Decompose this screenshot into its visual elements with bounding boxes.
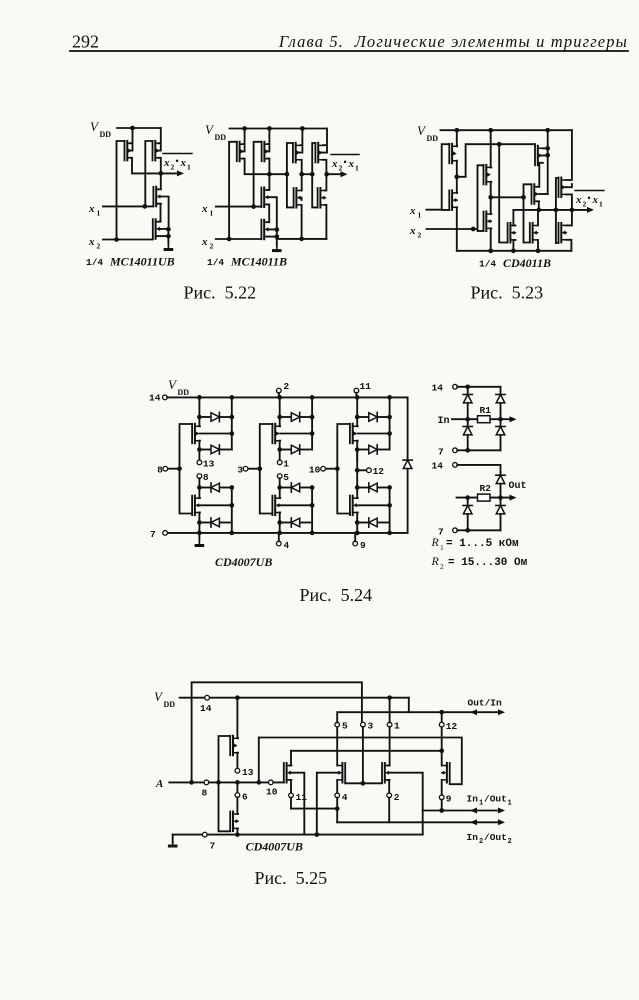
transistor VT15 p-channel (inverter B) [484,165,492,185]
wire VDD drop to VT5 source [243,129,245,145]
svg-text:x: x [201,203,208,215]
ground (circuit 1) [164,244,174,252]
node n substrate dot (pair B) [310,503,315,508]
svg-text:= 1...5 кОм: = 1...5 кОм [446,538,519,550]
wire VDD drop to VT1 source [130,128,132,143]
node VDD rail dot right (pair A) [229,395,234,400]
wire rail M (nor output) [513,209,572,211]
transistor VT17 p-channel (nor upper B) [532,184,540,204]
diode output clamp (circuit 4) [403,460,412,468]
pin 13 terminal (pair A) [197,460,202,465]
pin 7 terminal [163,531,168,536]
wire VDD drop to VT18 source [543,130,548,148]
wire VT5 substrate tie [243,146,246,151]
svg-text:1: 1 [599,200,603,209]
label output x2*x1 (circuit 1) [163,154,192,172]
node output junction (circuit 1) [158,171,163,176]
label pin 12 (circuit 5) [446,721,458,732]
transistor VT21 p-channel (output inverter) [559,178,567,198]
transistor VT20 n-channel (nor lower B) [530,223,538,243]
wire n source drop (pair A) [198,513,201,533]
wire p gate lead (pair C) [337,424,350,514]
svg-text:2: 2 [339,164,343,173]
label pin 5 (pair B) [283,472,289,483]
diode lower-left (network R1) [463,419,472,450]
wire W3 ground rail (circuit 5) [173,834,423,836]
caption Рис. 5.23 [471,283,544,303]
diode p-drain-VDD (pair A) [199,445,231,454]
node diode branch dot (pair B) [277,415,282,420]
wire VT18 substrate tie [541,155,548,157]
pin 11 terminal (circuit 5) [289,793,294,798]
node bottom rail dot (network R1) [465,448,470,453]
label pin 4 [284,540,290,551]
diode n-source-VSS (pair C) [357,518,389,527]
svg-text:1: 1 [418,211,422,220]
svg-text:DD: DD [427,134,439,143]
node VDD rail dot right (pair B) [310,395,315,400]
diode upper-right (network R1) [496,387,505,419]
svg-text:6: 6 [242,792,248,803]
label x1 (circuit 3) [409,205,422,220]
wire top rail (network R1) [457,386,500,388]
node VT8 substrate dot [274,227,279,232]
wire VDD drop to VT15 source [490,130,493,167]
wire pin9 stub to In1 line [441,800,443,811]
node pin stub dot (pair C) [355,468,360,473]
transistor switch S1 (circuit 5) [284,763,292,783]
node output dot (circuit 3) [570,208,575,213]
node ground rail dot (circuit 2) [299,237,304,242]
arrow Out/In [442,709,505,715]
wire top rail (network R2) [457,464,500,466]
node bottom rail dot left (pair A) [197,531,202,536]
wire gate line S2-S3 (circuit 5) [345,782,382,784]
node ground dot B [488,248,493,253]
pin 13 terminal (circuit 5) [235,768,240,773]
wire VT7 substrate lead [268,197,276,229]
svg-text:7: 7 [438,447,444,458]
svg-text:x: x [88,236,95,248]
node bottom rail dot right (pair B) [310,531,315,536]
node n substrate dot (pair C) [387,503,392,508]
svg-text:12: 12 [446,721,458,732]
node diode column dot a (pair B) [310,415,315,420]
wire VDD rail (circuit 2) [230,128,328,130]
wire x1 input (circuit 1) [103,205,153,207]
label x2 (circuit 3) [409,225,422,240]
wire p-source drop (pair C) [356,397,358,426]
wire VT1 drain to output node [130,158,161,174]
svg-text:2: 2 [210,242,214,251]
wire n drain stub (pair A) [198,497,201,499]
label R2 value [431,554,528,571]
wire pin2 drop to In2 line [388,798,390,823]
wire W2 VDD rail (circuit 5) [180,697,409,699]
wire L5 drain line (circuit 5) [291,750,442,752]
node x2 junction dot [114,237,119,242]
label In1/Out1 (circuit 5) [467,794,512,808]
node VDD dot 3 (circuit 3) [545,128,550,133]
wire VT22 drain up to output node [566,210,572,226]
pin 8 terminal (pair A) [197,474,202,479]
node VDD dot 3 (circuit 2) [300,126,305,131]
wire R1 drop to VT19 gate [499,144,507,242]
diode n-source-VSS (pair B) [280,518,312,527]
svg-text:1: 1 [210,209,214,218]
svg-text:7: 7 [438,527,444,538]
node In1 dot (circuit 5) [439,808,444,813]
svg-text:Рис. 5.25: Рис. 5.25 [255,868,328,888]
pin 8 terminal (circuit 5) [204,780,209,785]
node bottom rail dot left (pair B) [277,531,282,536]
wire VT2 substrate tie [160,145,161,151]
node bottom rail dot (network R2) [465,528,470,533]
wire VDD drop to VT6 source [267,129,269,145]
label pin 11 (circuit 5) [296,792,308,803]
label gate pin 3 (pair B) [237,465,243,476]
transistor VT11 p-channel (circuit 2 buffer 2) [315,143,323,163]
wire VSS diode column (pair C) [389,488,391,533]
svg-text:1/4: 1/4 [86,257,103,268]
node A1 dot (inverter A out) [454,174,459,179]
pin 7 terminal (network R1) [453,448,458,453]
node gate line dot (circuit 5) [361,781,366,786]
wire stage3 gate rail (circuit 2) [312,143,317,207]
svg-text:V: V [417,123,427,138]
pin 2 terminal (circuit 5) [387,793,392,798]
label pin 8 (pair A) [203,472,209,483]
wire x1 input (circuit 3) [427,209,442,211]
diode n-drain-VSS (pair A) [199,483,231,492]
node A dot pin6 (circuit 5) [235,780,240,785]
arrow In1/Out1 [470,808,505,814]
wire VT18 drain to VT17 source [537,163,543,187]
pin 1 terminal (pair B) [277,460,282,465]
wire VT5 drain to node N1 [243,159,287,175]
wire output arrow (circuit 1) [161,170,184,176]
wire right diode column (circuit 4) [407,397,409,533]
wire p drain drop to pin (pair B) [279,441,282,461]
svg-text:R2: R2 [480,483,492,494]
svg-text:1: 1 [394,721,400,732]
diode p-drain-VDD (pair C) [357,445,389,454]
wire inverter A gate rail [442,144,450,210]
node R1 dot [497,142,502,147]
svg-text:DD: DD [178,388,190,397]
wire W2 drop to OutIn (circuit 5) [408,698,410,713]
wire VDD drop to VT2 source [158,128,161,143]
wire common drain column (pair C) [356,450,358,499]
transistor VT3 n-channel (upper, circuit 1) [153,187,161,207]
label pin 14 (network R1) [432,383,444,394]
svg-text:2: 2 [284,381,290,392]
transistor VT10 n-channel (circuit 2 buffer 1) [294,188,302,208]
wire gate input (pair A) [168,468,180,470]
wire VT16 source down to ground rail [490,228,493,250]
svg-text:Рис. 5.22: Рис. 5.22 [184,283,257,303]
node In dot right [498,417,503,422]
label VDD (circuit 4) [168,377,189,397]
wire S3 source drop to pin 2 [388,780,390,793]
node W2 dot source (circuit 5) [235,695,240,700]
diode gate-VDD (pair A) [199,412,231,421]
label pin 13 (circuit 5) [242,767,254,778]
transistor n-channel (pair B) [272,496,280,515]
pin 1 terminal (circuit 5) [387,722,392,727]
pin 14 terminal (network R1) [453,384,458,389]
running head: Глава 5. Логические элементы и триггеры [278,32,628,51]
wire S4 bus (circuit 5) [441,712,443,765]
svg-text:9: 9 [446,794,452,805]
wire VT17 substrate lead [539,193,548,195]
node R2 dot [521,195,526,200]
pin 14 terminal [163,395,168,400]
label x1 (circuit 1) [88,203,101,218]
pin input terminal (pair A) [163,466,168,471]
svg-text:7: 7 [150,529,156,540]
wire pin 12 stub (pair C) [357,469,367,471]
wire pin5 bus (circuit 5) [336,727,338,766]
node M dot 2 (gate tap) [554,208,559,213]
svg-text:2: 2 [97,242,101,251]
node n diode column dot a (pair C) [387,485,392,490]
wire VT16 drain up to B1 [490,197,493,214]
diode upper (network R2) [496,465,505,498]
wire S4 source to pin 9 [441,780,443,795]
wire VDD rail (circuit 3) [441,129,572,131]
pin 12 terminal (pair C) [367,468,372,473]
svg-text:1: 1 [508,800,512,808]
svg-text:2: 2 [171,163,175,172]
node n diode branch dot (pair C) [355,485,360,490]
wire n source drop (pair C) [356,513,359,533]
wire stage2 gate rail (circuit 2) [287,143,294,207]
label R1 [480,405,492,416]
transistor VT5 p-channel (circuit 2 input stage left) [237,142,245,162]
wire x2 input (circuit 1) [103,239,153,241]
svg-text:Out/In: Out/In [468,698,503,709]
wire bottom rail (network R2) [457,529,500,531]
transistor VT23 p-channel (circuit 5 inverter) [230,736,238,756]
transistor switch S3 (circuit 5) [382,763,390,783]
label pin 14 (circuit 5) [200,703,212,714]
wire p source stub (pair B) [279,425,282,427]
svg-text:14: 14 [200,703,212,714]
svg-text:MC14011B: MC14011B [230,255,287,269]
svg-text:CD4011B: CD4011B [503,256,551,270]
svg-text:DD: DD [100,130,112,139]
wire VT12 source to ground rail [325,205,326,239]
svg-text:In: In [438,416,450,427]
wire VT7 source to VT8 drain [267,204,269,222]
svg-text:•: • [588,193,591,203]
caption Рис. 5.24 [300,585,373,605]
node VT4 substrate dot [166,227,171,232]
wire VSS diode column (pair B) [311,488,313,533]
wire VT2 drain to output node [158,158,161,174]
wire VT4 source lead [158,235,169,237]
wire VT3 substrate lead [160,197,168,230]
wire VT6 gate lead [254,142,262,207]
label pin 2 (circuit 5) [394,792,400,803]
node VDD rail dot left (pair A) [197,395,202,400]
pin 6 terminal (circuit 5) [235,793,240,798]
label pin 1 (pair B) [283,458,289,469]
wire VT10 substrate tie [300,198,301,200]
node OutIn dot (circuit 5) [439,710,444,715]
wire VT13 drain to node A1 [456,161,458,177]
node A dot gate rail (circuit 5) [216,780,221,785]
node gate input dot (pair C) [335,466,340,471]
label pin 1 (circuit 5) [394,721,400,732]
wire VT19 drain up to rail M [513,210,515,226]
resistor R1 [478,416,491,423]
wire VDD drop to VT9 source [301,129,303,146]
svg-text:13: 13 [242,767,254,778]
svg-text:1/4: 1/4 [207,257,224,268]
wire VT20 drain up to rail M [537,210,539,226]
wire VT22 source down to ground rail [566,240,571,251]
pin input terminal (pair C) [321,466,326,471]
svg-text:5: 5 [283,472,289,483]
wire VDD diode column (pair C) [389,397,391,449]
svg-text:4: 4 [342,792,348,803]
label pin 13 (pair A) [203,458,215,469]
wire VDD drop to VT13 source [456,130,458,146]
wire S3 substrate lead [389,773,423,835]
label 1/4 CD4011B [479,256,551,270]
resistor R2 [478,494,491,501]
node In dot left [465,417,470,422]
ground (circuit 4) [195,533,205,547]
svg-text:DD: DD [164,700,176,709]
pin 5 terminal (circuit 5) [335,722,340,727]
wire VT4 substrate lead [160,228,169,230]
wire line A2 (circuit 5) [291,808,337,810]
svg-text:7: 7 [210,841,216,852]
node N3 dot (circuit 2) [324,172,329,177]
label pin 7 [150,529,156,540]
node VT18 source dot [545,146,550,151]
wire VT11 substrate tie [321,147,327,153]
svg-text:x: x [331,158,338,170]
transistor VT18 p-channel (nor upper A) [535,146,543,166]
wire gate input (pair C) [325,468,337,470]
wire VT3 source to VT4 drain [158,204,160,222]
svg-text:9: 9 [360,540,366,551]
label Out (network R2) [509,481,527,492]
svg-text:3: 3 [368,721,374,732]
svg-text:Рис. 5.23: Рис. 5.23 [471,283,544,303]
node W3 dot inverter (circuit 5) [235,832,240,837]
node S4 bus dot on L5 [439,748,444,753]
svg-text:R1: R1 [480,405,492,416]
node VDD dot 1 (circuit 2) [242,126,247,131]
pin input terminal (pair B) [243,466,248,471]
pin 9 terminal [353,533,358,546]
wire S1 source drop to pin 11 [289,780,291,793]
svg-text:x: x [180,157,187,169]
label output x2*x1 (circuit 2) [331,155,359,173]
pin 14 terminal (network R2) [453,463,458,468]
svg-text:2: 2 [508,838,512,846]
caption Рис. 5.25 [255,868,328,888]
node bottom rail dot left (pair C) [355,531,360,536]
wire n substrate lead (pair C) [358,504,390,506]
svg-text:1: 1 [440,543,444,552]
pin 4 terminal (circuit 5) [335,793,340,798]
label x2 (circuit 2) [201,236,214,251]
wire VDD rail (circuit 1) [117,127,161,129]
node n diode branch dot (pair B) [277,485,282,490]
wire VSS diode column (pair A) [231,488,233,533]
wire p gate lead (pair B) [260,424,273,514]
svg-text:1: 1 [97,209,101,218]
wire VT19 source to ground rail [513,240,515,251]
svg-text:R: R [431,535,440,549]
node B1 dot (inverter B out) [488,195,493,200]
svg-text:x: x [163,157,170,169]
label VDD (circuit 5) [154,689,175,709]
wire x2 input (circuit 2) [216,238,262,240]
node Out dot right [498,495,503,500]
label CD4007UB (circuit 4) [215,555,272,569]
pin 14 terminal (circuit 5) [205,695,210,700]
transistor VT7 n-channel (circuit 2 nand upper) [261,188,269,208]
node n diode column dot a (pair B) [310,485,315,490]
node VT8 source dot [274,234,279,239]
transistor VT14 n-channel (inverter A) [449,190,457,210]
pin 10 terminal (circuit 5) [268,780,273,785]
diode lower-right (network R1) [496,419,505,450]
wire output node to VT3 drain [158,173,161,189]
wire pin6 stub (circuit 5) [236,782,238,793]
svg-text:x: x [348,158,355,170]
svg-text:A: A [155,778,163,790]
transistor VT8 n-channel (circuit 2 nand lower) [261,220,269,240]
label x1 (circuit 2) [201,203,214,218]
node top rail dot (network R1) [465,384,470,389]
svg-text:V: V [154,689,164,704]
wire n-drain drop (pair A) [198,478,200,498]
wire VT18 gate from R1 [534,144,536,146]
transistor n-channel (pair C) [350,496,358,515]
wire output inverter gate rail [556,178,559,243]
wire VT12 drain up to N3 [325,174,326,190]
label pin 6 (circuit 5) [242,792,248,803]
wire pin6 to VT24 drain [236,797,239,814]
wire VT8 source lead [266,236,277,238]
svg-text:1/4: 1/4 [479,259,496,270]
label pin 7 (circuit 5) [210,841,216,852]
label In (network R1) [438,416,450,427]
node W3 dot S2 substrate [314,832,319,837]
wire output arrow (circuit 2) [327,171,348,177]
svg-text:In: In [467,794,479,805]
node x2 dot (circuit 2) [227,237,232,242]
wire VDD corner drop to VT21 source [566,130,572,180]
diode lower-left (network R2) [463,498,472,531]
svg-text:x: x [409,225,416,237]
svg-text:x: x [409,205,416,217]
wire VT23 source up to W2 [236,698,239,739]
node VT4 source dot [166,234,171,239]
label VDD (circuit 2) [205,122,226,142]
svg-text:V: V [168,377,178,392]
pin 7 terminal (network R2) [453,528,458,533]
wire node N2 segment [302,173,313,175]
